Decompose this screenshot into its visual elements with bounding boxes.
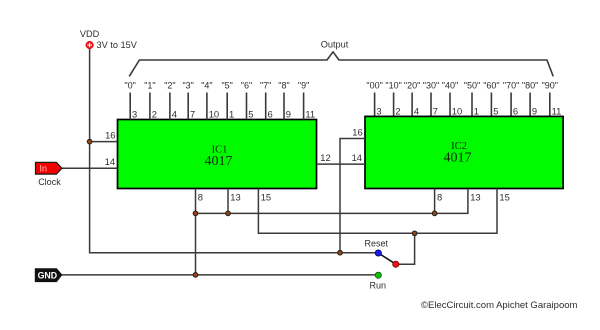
IC1 output pin 5 label 6 [241, 81, 254, 120]
wire ground bus IC1 pin8/13 to IC2 pin8/13 [196, 189, 468, 214]
svg-text:3: 3 [376, 105, 381, 116]
switch SW1 Reset contact [375, 250, 381, 256]
node In clock input flag [36, 162, 62, 174]
IC2 output pin 1 label 50 [464, 81, 480, 117]
svg-text:GND: GND [38, 271, 58, 281]
svg-text:13: 13 [230, 192, 240, 203]
svg-text:"80": "80" [522, 81, 538, 91]
wire ground rail GND to Run contact [62, 274, 379, 276]
IC2 output pin 11 label 90 [542, 81, 562, 117]
IC2 pin 8 VSS stub [435, 189, 443, 214]
svg-text:"1": "1" [144, 81, 155, 91]
svg-text:9: 9 [286, 109, 291, 120]
svg-text:"30": "30" [423, 81, 439, 91]
svg-text:"0": "0" [124, 81, 135, 91]
svg-text:"6": "6" [241, 81, 252, 91]
IC1 output pin 7 label 3 [182, 81, 195, 120]
svg-text:In: In [40, 164, 48, 174]
svg-text:"20": "20" [404, 81, 420, 91]
svg-text:"60": "60" [483, 81, 499, 91]
VDD power symbol [80, 29, 100, 49]
IC2 output pin 3 label 00 [366, 81, 382, 117]
svg-text:"9": "9" [298, 81, 309, 91]
svg-text:VDD: VDD [80, 29, 100, 39]
wire VDD rail (vertical) and VDD feed to reset switch [90, 49, 379, 253]
IC1 output pin 10 label 4 [201, 81, 219, 120]
svg-text:4017: 4017 [444, 150, 472, 165]
junction IC1 pin8 bus [193, 211, 198, 216]
svg-text:13: 13 [470, 192, 480, 203]
svg-text:11: 11 [552, 105, 562, 116]
svg-text:Run: Run [370, 281, 387, 291]
IC1 output pin 9 label 8 [278, 81, 291, 120]
wire IC1 pin 12 carry-out to IC2 pin 14 clock [317, 152, 366, 164]
svg-text:3: 3 [132, 109, 137, 120]
svg-text:4: 4 [172, 109, 177, 120]
svg-text:"4": "4" [201, 81, 212, 91]
junction ground rail / pin8 [193, 273, 198, 278]
svg-text:4: 4 [414, 105, 419, 116]
IC1 output pin 3 label 0 [124, 81, 137, 120]
IC1 pin 8 VSS wire down to ground rail [196, 189, 204, 275]
junction IC1 pin13 bus [226, 211, 231, 216]
op IC1 4017 decade counter [118, 120, 317, 189]
IC2 output pin 2 label 10 [385, 81, 401, 117]
junction reset line / switch [412, 231, 417, 236]
IC2 pin 16 VDD stub and drop wire [340, 127, 365, 253]
svg-text:16: 16 [105, 130, 115, 141]
switch SW1 common contact [393, 261, 399, 267]
switch SW1 lever (Reset/Run) [378, 253, 396, 264]
svg-text:4017: 4017 [205, 154, 233, 169]
svg-text:2: 2 [152, 109, 157, 120]
IC1 output pin 6 label 7 [260, 81, 273, 120]
svg-text:10: 10 [452, 105, 462, 116]
IC2 output pin 5 label 60 [483, 81, 499, 117]
svg-text:1: 1 [474, 105, 479, 116]
svg-text:7: 7 [433, 105, 438, 116]
svg-text:"7": "7" [260, 81, 271, 91]
ground GND flag [35, 269, 62, 282]
svg-text:"00": "00" [366, 81, 382, 91]
svg-text:15: 15 [261, 192, 271, 203]
svg-text:9: 9 [532, 105, 537, 116]
IC2 output pin 7 label 30 [423, 81, 439, 117]
svg-text:©ElecCircuit.com Apichet Garai: ©ElecCircuit.com Apichet Garaipoom [421, 300, 578, 311]
svg-text:"8": "8" [278, 81, 289, 91]
IC2 output pin 6 label 70 [503, 81, 519, 117]
svg-text:7: 7 [190, 109, 195, 120]
svg-text:12: 12 [320, 152, 330, 163]
svg-text:"50": "50" [464, 81, 480, 91]
svg-text:Reset: Reset [365, 239, 389, 249]
svg-text:16: 16 [352, 127, 362, 138]
wire In/Clock to IC1 pin 14 [62, 156, 118, 168]
svg-text:Clock: Clock [38, 177, 61, 187]
IC2 output pin 9 label 80 [522, 81, 538, 117]
svg-text:"3": "3" [182, 81, 193, 91]
svg-text:1: 1 [229, 109, 234, 120]
svg-text:15: 15 [499, 192, 509, 203]
IC2 output pin 10 label 40 [442, 81, 462, 117]
junction IC2 pin16 / VDD line [338, 250, 343, 255]
svg-text:"40": "40" [442, 81, 458, 91]
output brace spanning all outputs [129, 52, 553, 77]
op IC2 4017 decade counter [365, 116, 563, 188]
svg-text:6: 6 [268, 109, 273, 120]
svg-text:10: 10 [209, 109, 219, 120]
svg-text:14: 14 [105, 156, 115, 167]
IC1 output pin 2 label 1 [144, 81, 157, 120]
switch SW1 Run contact [375, 272, 381, 278]
junction VDD / IC1 pin16 [87, 139, 92, 144]
svg-text:2: 2 [395, 105, 400, 116]
svg-text:8: 8 [198, 192, 203, 203]
svg-text:11: 11 [305, 109, 315, 120]
svg-text:8: 8 [437, 192, 442, 203]
IC1 pin 16 VDD stub [90, 130, 118, 142]
svg-text:14: 14 [352, 152, 362, 163]
IC1 output pin 11 label 9 [298, 81, 315, 120]
svg-text:"5": "5" [221, 81, 232, 91]
svg-text:"70": "70" [503, 81, 519, 91]
svg-text:3V to 15V: 3V to 15V [97, 40, 138, 50]
IC1 pin 15 reset wire [258, 189, 497, 234]
svg-text:"2": "2" [164, 81, 175, 91]
IC1 output pin 1 label 5 [221, 81, 234, 120]
svg-text:6: 6 [513, 105, 518, 116]
svg-text:"10": "10" [385, 81, 401, 91]
svg-text:Output: Output [321, 40, 349, 50]
svg-text:"90": "90" [542, 81, 558, 91]
junction IC2 pin8 bus [432, 211, 437, 216]
svg-text:5: 5 [493, 105, 498, 116]
IC1 output pin 4 label 2 [164, 81, 177, 120]
IC2 output pin 4 label 20 [404, 81, 420, 117]
IC1 pin 13 enable stub [228, 189, 241, 214]
svg-text:5: 5 [248, 109, 253, 120]
wire reset net junction down to switch common [396, 233, 415, 264]
